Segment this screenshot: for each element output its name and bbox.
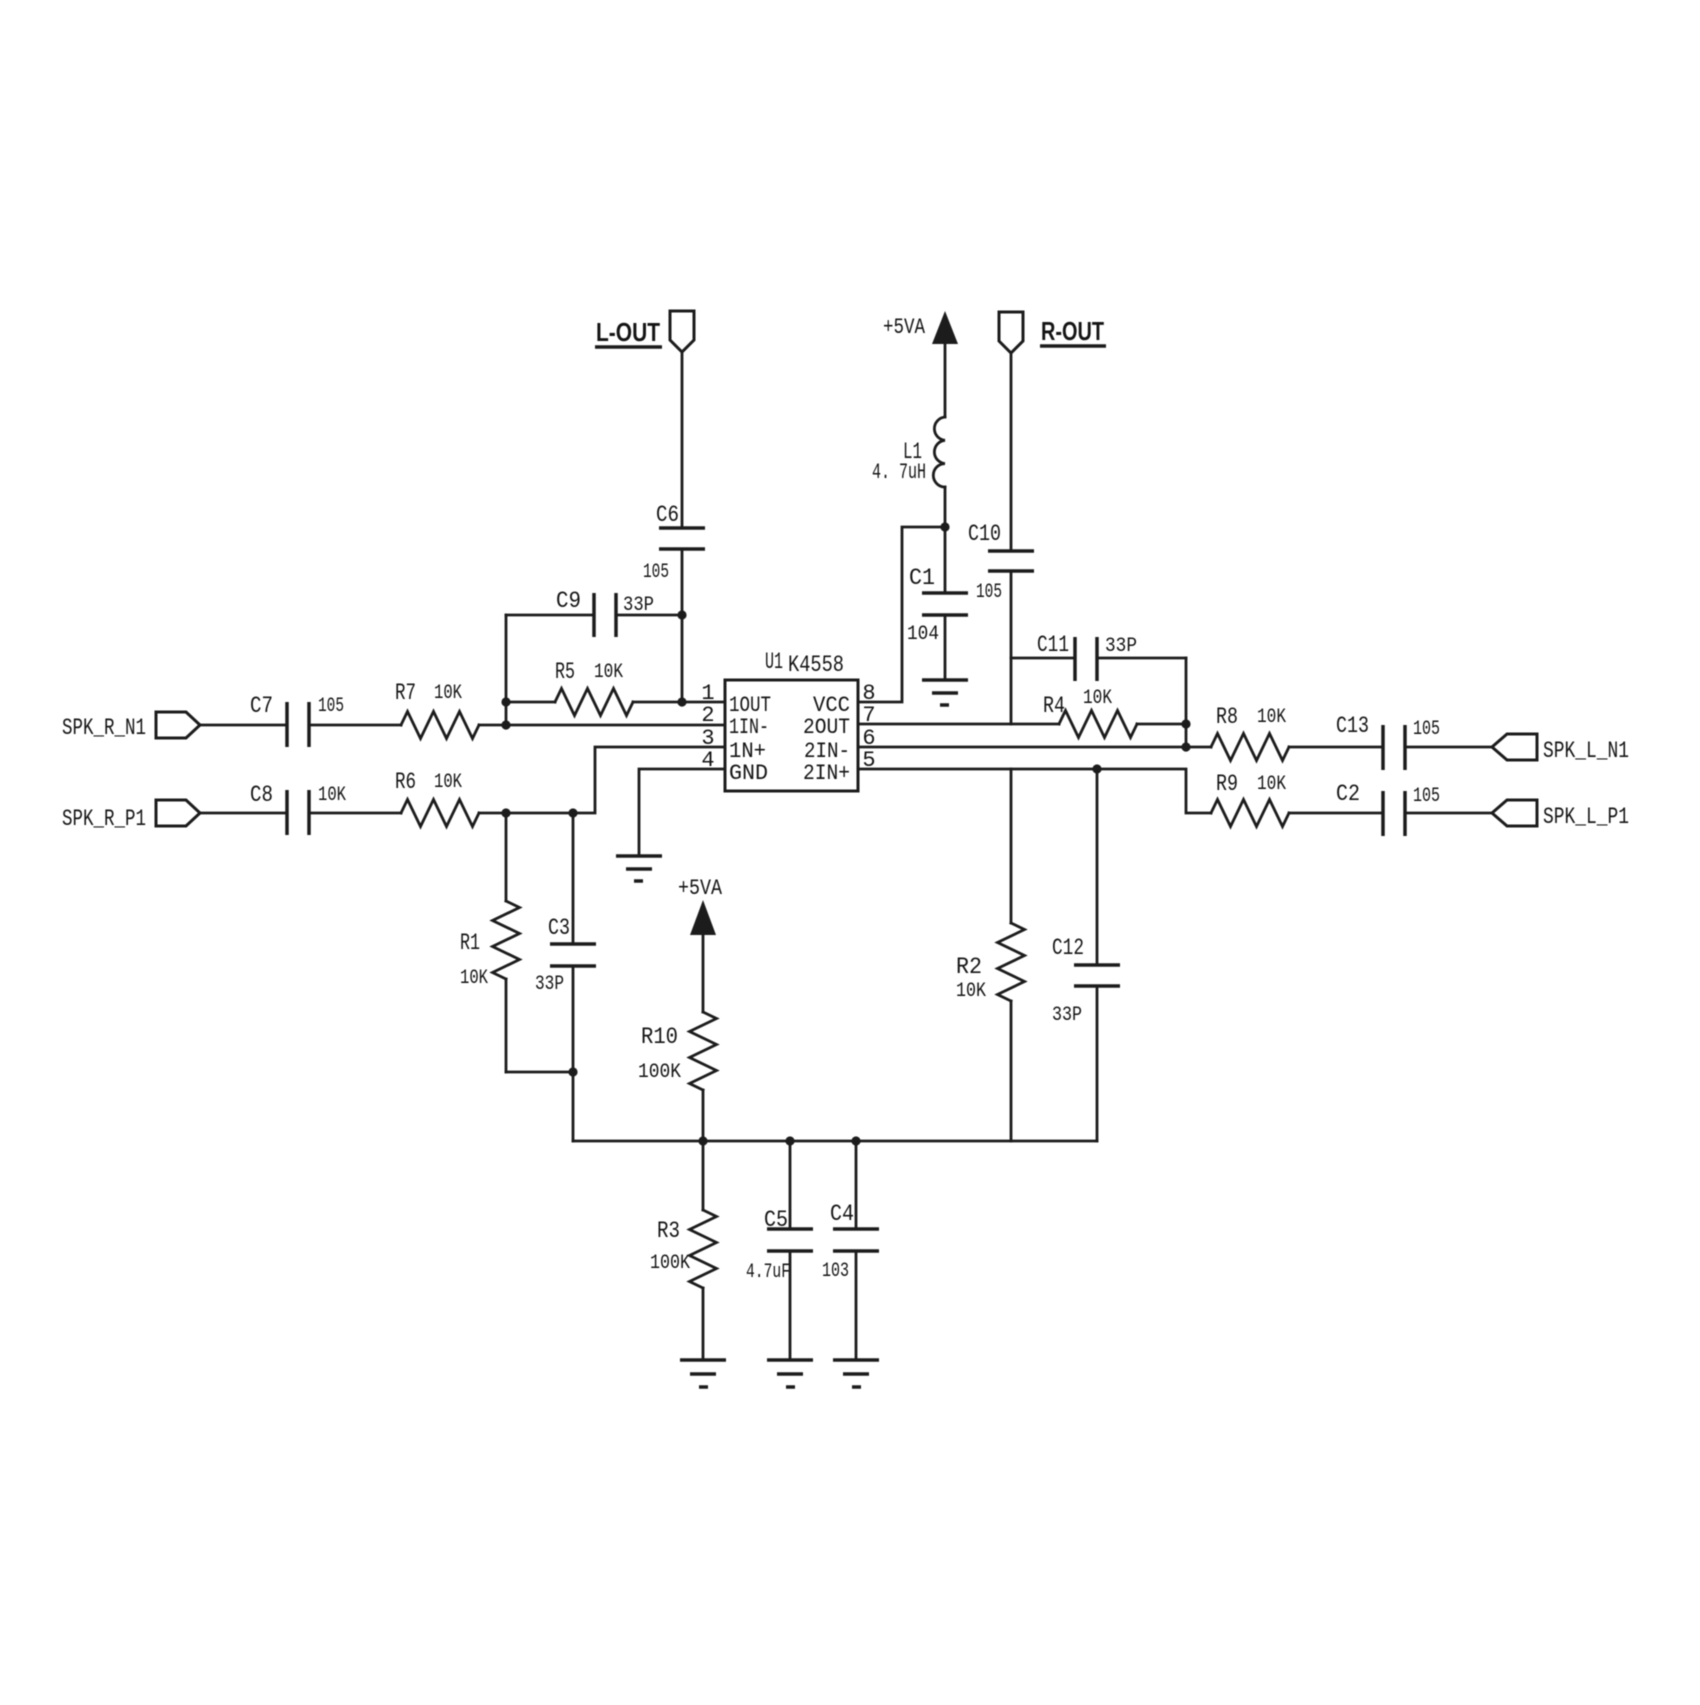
svg-text:C8: C8	[250, 782, 273, 808]
capacitor C9	[506, 588, 682, 637]
svg-text:R1: R1	[460, 930, 480, 956]
ground	[616, 856, 662, 881]
svg-text:R8: R8	[1216, 704, 1238, 730]
resistor R5	[506, 659, 725, 716]
svg-text:SPK_R_N1: SPK_R_N1	[62, 715, 146, 741]
wire pin4 to ground	[639, 769, 725, 856]
resistor R8	[1211, 704, 1289, 761]
resistor R9	[1211, 771, 1289, 827]
svg-text:C4: C4	[830, 1201, 854, 1227]
wire L-OUT to C6	[681, 352, 684, 528]
svg-text:10K: 10K	[594, 661, 624, 684]
svg-text:C6: C6	[656, 502, 679, 528]
svg-text:10K: 10K	[1257, 706, 1287, 729]
resistor R3	[650, 1210, 717, 1360]
svg-text:C10: C10	[968, 521, 1001, 547]
svg-text:10K: 10K	[318, 784, 347, 807]
svg-text:C7: C7	[250, 693, 273, 719]
node R7/R5/C9	[501, 720, 510, 729]
svg-text:10K: 10K	[956, 980, 987, 1003]
resistor R1	[460, 813, 573, 1072]
wire +5VA to R10	[702, 932, 705, 1012]
svg-text:SPK_L_N1: SPK_L_N1	[1543, 738, 1629, 764]
wire pin5 net	[858, 769, 1211, 813]
wire C13 to port	[1405, 746, 1492, 749]
svg-text:+5VA: +5VA	[678, 876, 723, 901]
svg-text:100K: 100K	[650, 1252, 691, 1275]
wire vertical C9 branch	[505, 615, 508, 725]
svg-text:L-OUT: L-OUT	[596, 317, 660, 347]
svg-text:10K: 10K	[1257, 773, 1287, 796]
capacitor C7	[250, 693, 344, 747]
svg-text:R2: R2	[956, 954, 982, 980]
svg-text:10K: 10K	[1083, 687, 1113, 710]
power +5VA	[678, 876, 723, 935]
port L-OUT	[595, 311, 694, 352]
svg-text:U1: U1	[765, 649, 783, 675]
svg-text:1IN-: 1IN-	[729, 715, 769, 740]
capacitor C10	[968, 521, 1034, 604]
svg-text:10K: 10K	[434, 771, 463, 794]
svg-text:C12: C12	[1052, 935, 1084, 961]
svg-text:C2: C2	[1336, 781, 1360, 807]
svg-text:SPK_L_P1: SPK_L_P1	[1543, 804, 1629, 830]
node bus/C4	[851, 1136, 860, 1145]
node C12 top	[1092, 764, 1101, 773]
svg-text:33P: 33P	[1052, 1004, 1082, 1027]
wire bottom bus	[573, 1140, 1097, 1143]
svg-text:C1: C1	[909, 565, 935, 591]
port SPK_L_P1	[1492, 800, 1629, 830]
svg-text:R10: R10	[641, 1024, 678, 1050]
svg-text:C9: C9	[556, 588, 581, 614]
wire	[200, 724, 287, 727]
svg-text:10K: 10K	[460, 967, 489, 990]
ground	[833, 1360, 879, 1387]
wire L1 to node	[944, 487, 947, 527]
svg-text:K4558: K4558	[788, 652, 844, 678]
port SPK_R_N1	[62, 712, 200, 741]
node R5 left	[501, 697, 510, 706]
ground	[680, 1360, 726, 1387]
node R4/C11	[1181, 719, 1190, 728]
wire R-OUT to C10	[1010, 353, 1013, 551]
svg-text:2IN+: 2IN+	[803, 761, 850, 786]
node R1 bottom / C3	[568, 1067, 577, 1076]
svg-text:2OUT: 2OUT	[803, 715, 850, 740]
capacitor C1	[907, 527, 968, 680]
node C6 bottom on pin1 net	[677, 697, 686, 706]
ground	[922, 680, 968, 705]
capacitor C8	[250, 782, 347, 835]
wire R8 to C13	[1289, 746, 1383, 749]
wire pin8 VCC jog	[858, 527, 945, 702]
svg-text:2: 2	[701, 703, 714, 728]
wire bus to R3	[702, 1141, 705, 1210]
capacitor C4	[822, 1141, 879, 1360]
svg-text:R5: R5	[555, 659, 575, 685]
svg-text:105: 105	[643, 561, 669, 584]
resistor R6	[395, 769, 479, 827]
port R-OUT	[999, 312, 1106, 353]
svg-text:GND: GND	[729, 761, 768, 786]
svg-text:33P: 33P	[623, 594, 654, 617]
svg-text:+5VA: +5VA	[883, 315, 926, 340]
capacitor C13	[1336, 713, 1440, 770]
node R1 top	[501, 808, 510, 817]
wire pin6 net	[858, 746, 1211, 749]
port SPK_L_N1	[1492, 734, 1629, 764]
svg-text:105: 105	[1413, 785, 1440, 808]
capacitor C6	[643, 502, 705, 584]
svg-text:105: 105	[976, 581, 1002, 604]
wire pin2 net	[479, 724, 725, 727]
wire R9 to C2	[1289, 812, 1383, 815]
wire	[309, 812, 401, 815]
node C9/C6	[677, 610, 686, 619]
svg-text:SPK_R_P1: SPK_R_P1	[62, 806, 146, 832]
port SPK_R_P1	[62, 800, 200, 832]
svg-text:33P: 33P	[535, 973, 564, 996]
wire R6 to pin3 jog	[479, 747, 725, 813]
wire +5VA to L1	[944, 341, 947, 417]
wire pin7 to R4	[858, 723, 1059, 726]
wire C11 right down to pin6 net	[1185, 658, 1188, 747]
svg-text:100K: 100K	[638, 1061, 682, 1084]
svg-text:103: 103	[822, 1260, 849, 1283]
svg-text:R6: R6	[395, 769, 416, 795]
node pin6/C11/R4	[1181, 742, 1190, 751]
node C3 top	[568, 808, 577, 817]
svg-text:C13: C13	[1336, 713, 1369, 739]
svg-text:R3: R3	[657, 1218, 680, 1244]
inductor L1 4.7uH	[872, 417, 945, 487]
resistor R2	[956, 769, 1025, 1141]
capacitor C3	[535, 813, 596, 1141]
resistor R4	[1043, 687, 1186, 738]
svg-text:R7: R7	[395, 680, 416, 706]
capacitor C5	[746, 1141, 813, 1360]
svg-text:R4: R4	[1043, 693, 1065, 719]
svg-text:C11: C11	[1037, 632, 1069, 658]
capacitor C11	[1011, 632, 1186, 681]
node bus/R10/R3	[698, 1136, 707, 1145]
wire	[309, 724, 401, 727]
node L1/C1/VCC	[940, 522, 949, 531]
resistor R7	[395, 680, 479, 739]
wire C10 to pin7 net	[1010, 571, 1013, 724]
power +5VA	[883, 311, 958, 344]
op-amp U1 K4558	[725, 649, 858, 791]
svg-text:4. 7uH: 4. 7uH	[872, 460, 926, 485]
svg-text:R9: R9	[1216, 771, 1238, 797]
resistor R10	[638, 1012, 717, 1141]
capacitor C2	[1336, 781, 1440, 836]
wire C2 to port	[1405, 812, 1492, 815]
node bus/C5	[785, 1136, 794, 1145]
ground	[767, 1360, 813, 1387]
svg-text:4.7uF: 4.7uF	[746, 1261, 790, 1284]
svg-text:33P: 33P	[1105, 635, 1137, 658]
svg-text:R-OUT: R-OUT	[1041, 316, 1104, 346]
svg-text:105: 105	[318, 695, 344, 718]
wire C6 to pin1	[681, 549, 684, 702]
capacitor C12	[1052, 769, 1120, 1141]
svg-text:105: 105	[1413, 718, 1440, 741]
wire	[200, 812, 287, 815]
svg-text:10K: 10K	[434, 682, 463, 705]
svg-text:104: 104	[907, 623, 939, 646]
svg-text:C3: C3	[548, 915, 570, 941]
